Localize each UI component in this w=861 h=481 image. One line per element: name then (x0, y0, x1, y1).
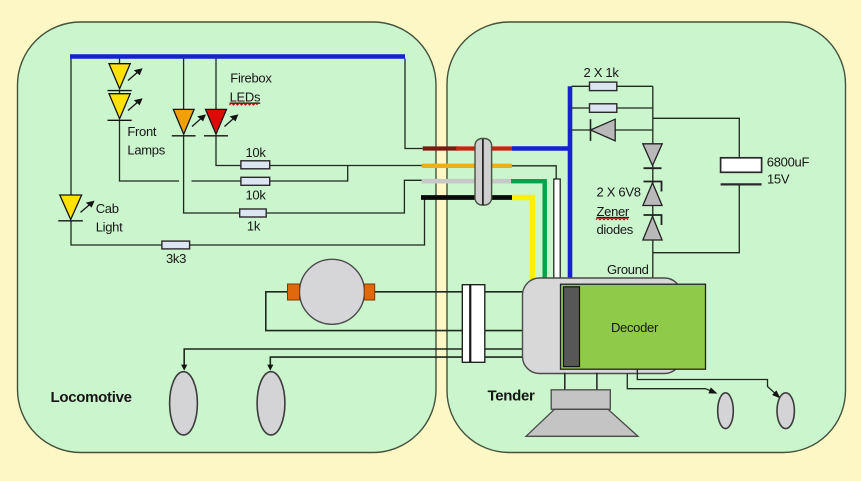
firebox orange LED (172, 109, 206, 135)
motor body (300, 259, 365, 324)
wire: capacitor bottom return (653, 184, 740, 252)
left pickup arrowhead (181, 365, 187, 371)
wire: right collector vertical down to ground (652, 86, 654, 278)
left pickup wheel (170, 372, 198, 435)
svg-text:Zener: Zener (597, 204, 630, 219)
zener diode bottom (up) (643, 215, 662, 240)
wire: connector to chassis 3 (485, 348, 524, 350)
svg-text:2 X 6V8: 2 X 6V8 (597, 185, 641, 200)
wire: 1k resistor B leads (572, 107, 590, 109)
wire: between front LEDs (119, 91, 121, 94)
resistor 3k3 (162, 241, 190, 249)
svg-text:Light: Light (96, 219, 123, 234)
svg-text:Ground: Ground (607, 262, 649, 277)
speaker leg right (596, 373, 598, 391)
wire: blue rail end down to red wire (405, 59, 423, 149)
wire: cab light drop from blue rail (70, 57, 72, 195)
capacitor 6800uF body (721, 158, 762, 173)
tender connector white bar 1 (462, 285, 470, 363)
svg-text:diodes: diodes (597, 222, 634, 237)
wire: red LED to 10k upper (216, 136, 241, 166)
speaker leg left (564, 373, 566, 391)
wire: connector to chassis 4 (485, 356, 524, 358)
wire: front lamps down to 10k row (120, 120, 180, 181)
wire: motor left brush loop to connector (266, 292, 463, 331)
wire: diode leads (572, 129, 591, 131)
svg-text:10k: 10k (245, 187, 266, 202)
wire: connector to chassis 1 (485, 291, 524, 293)
speaker cone (526, 409, 638, 436)
wire: 10k upper output to orange wire (270, 165, 422, 167)
left tender pickup arrowhead (708, 387, 717, 393)
wire: left pickup to connector (184, 349, 462, 368)
wire: 3k3 output to black wire (190, 198, 425, 245)
front lamp LED D2 (108, 94, 143, 121)
svg-text:1k: 1k (247, 218, 261, 233)
right tender pickup arrowhead (772, 390, 780, 398)
motor left brush (288, 284, 300, 300)
tender body outline (447, 22, 846, 453)
svg-text:6800uF: 6800uF (767, 154, 810, 169)
white wire lead from orange (512, 166, 556, 180)
wire: orange LED drop from rail (183, 57, 185, 109)
yellow wire to decoder (512, 198, 532, 281)
wire: 10k lower left lead (192, 180, 241, 182)
wire: 1k resistor A leads (572, 85, 590, 87)
wire: front lamps chain drop (119, 57, 121, 64)
decoder board (561, 284, 706, 369)
firebox red LED (204, 109, 238, 135)
spellcheck squiggle under LEDs (230, 103, 258, 105)
resistor 10k lower (241, 177, 270, 185)
right pickup arrowhead (267, 365, 273, 371)
wire: decoder to right tender pickup (637, 369, 775, 393)
wire: 1k output to grey wire (266, 180, 422, 213)
wire: red LED drop from rail (215, 57, 217, 109)
motor right brush (364, 284, 374, 300)
right tender pickup wheel (777, 393, 794, 429)
blue wire to decoder (512, 86, 572, 280)
decoder dark connector strip (564, 287, 580, 367)
svg-text:10k: 10k (245, 145, 266, 160)
resistor 1k (240, 209, 267, 217)
orange wire (422, 164, 512, 168)
green wire to decoder (511, 181, 545, 280)
black wire (421, 195, 512, 200)
inter-unit connector (475, 139, 492, 206)
svg-text:3k3: 3k3 (166, 251, 186, 266)
locomotive body outline (18, 22, 437, 453)
zener stack diode top (down) (643, 144, 662, 168)
red wire bright segment (456, 146, 512, 150)
speaker magnet (551, 390, 610, 410)
wire: decoder to left tender pickup (627, 374, 710, 391)
capacitor lower plate (721, 183, 762, 185)
resistor 10k upper (241, 161, 270, 169)
resistor 1k A (590, 82, 617, 91)
wire: cab LED to 3k3 row (71, 221, 162, 246)
tender connector white bar 2 (471, 285, 485, 363)
svg-text:2 X 1k: 2 X 1k (583, 65, 619, 80)
right pickup wheel (257, 372, 285, 435)
white wire bar (554, 179, 560, 280)
grey wire (422, 179, 511, 184)
blue rail (70, 54, 405, 58)
tender chassis (523, 278, 682, 374)
wire: motor right brush to connector (375, 291, 463, 293)
spellcheck squiggle under Zener (596, 218, 628, 220)
svg-text:Lamps: Lamps (127, 142, 165, 157)
zener diode middle (up) (643, 182, 662, 206)
wire: orange LED to 1k (184, 136, 240, 213)
left tender pickup wheel (718, 393, 734, 429)
svg-text:Front: Front (127, 124, 157, 139)
svg-text:Cab: Cab (96, 201, 119, 216)
wire: right pickup to connector (270, 357, 462, 368)
svg-text:Firebox: Firebox (230, 70, 272, 85)
wire: connector to chassis 2 (485, 330, 524, 332)
svg-text:Locomotive: Locomotive (51, 389, 132, 406)
resistor 1k B (590, 104, 617, 113)
diode D1 left-pointing (591, 119, 616, 141)
red wire dark segment (423, 146, 458, 150)
front lamp LED D1 (108, 64, 143, 91)
wire: capacitor top branch (653, 118, 740, 158)
svg-text:LEDs: LEDs (230, 90, 261, 105)
svg-text:Decoder: Decoder (611, 320, 659, 335)
cab light LED (58, 195, 94, 221)
wire: 10k lower output up to upper row (270, 166, 348, 182)
svg-text:Tender: Tender (488, 387, 536, 404)
svg-text:15V: 15V (767, 171, 790, 186)
